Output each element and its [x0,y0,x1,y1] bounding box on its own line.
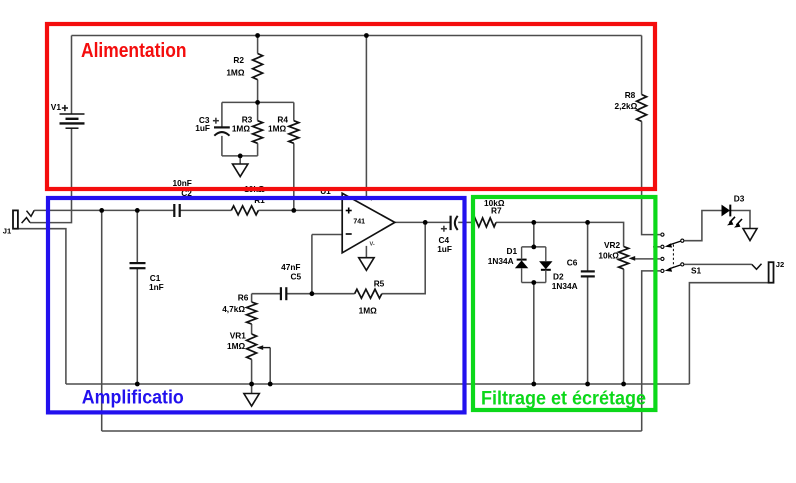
svg-text:1N34A: 1N34A [552,281,578,291]
wire feedback vertical [311,235,313,294]
label C4 plus sign [441,226,447,232]
node output/R5 [423,220,428,225]
wire R4 bottom lead to signal [293,143,295,210]
svg-text:1MΩ: 1MΩ [359,306,378,316]
wire R8 top lead [641,36,643,95]
svg-text:J1: J1 [3,227,12,236]
label VR1 [230,330,247,340]
wire switch contact B stub [653,246,660,248]
svg-text:10kΩ: 10kΩ [598,250,619,260]
wire battery positive lead [71,36,73,115]
node input/C1 [135,208,140,213]
ground under op-amp [359,258,374,271]
wire op-amp minus input [312,234,342,236]
svg-text:1nF: 1nF [149,282,164,292]
ground under VR1 [244,394,259,407]
label V1 [51,102,62,112]
diode D2 [539,247,552,283]
ground under D3 [743,229,757,241]
wire C1 top lead [136,210,138,263]
svg-text:V1: V1 [51,102,62,112]
wire diode pair top lead [533,222,535,247]
section box Alimentation [47,24,655,189]
node diode bottom [531,280,536,285]
svg-text:VR2: VR2 [604,240,621,250]
resistor R8 [637,95,647,122]
svg-text:1MΩ: 1MΩ [232,124,251,134]
wire op-amp V+ supply [365,36,367,198]
wire battery negative to J1 ring [30,128,72,222]
capacitor C3 [214,127,230,135]
diode D1 [515,247,528,283]
wire C3 bottom lead [221,136,223,156]
potentiometer VR2 [619,247,636,270]
label D3 [734,194,745,204]
svg-text:10nF: 10nF [173,178,192,188]
wire C3/R3 bottom joining [222,155,258,157]
node ground tap C3 [238,154,243,159]
wire R3 top lead [257,102,259,120]
wire C6 top lead [587,222,589,271]
node input/R4 [291,208,296,213]
svg-text:Filtrage et écrétage: Filtrage et écrétage [481,388,646,409]
capacitor C4 [451,216,458,230]
wire R6 top to C5 [252,293,281,295]
wire output drop to R5 [382,222,425,293]
label J1 [3,227,12,236]
wire C2 to R1 [180,209,232,211]
ground [233,164,248,177]
svg-text:1uF: 1uF [437,244,452,254]
label C2 value [173,178,192,188]
node input/bypass [99,208,104,213]
label D2 value [552,281,578,291]
label V1 plus sign [62,105,68,111]
svg-text:C6: C6 [567,258,578,268]
resistor R2 [253,54,263,80]
label S1 [691,265,702,275]
wire switch pole 1 to LED [684,211,721,241]
wire VR2 bottom lead [623,269,625,384]
label C4 [439,235,450,245]
op-amp U1 [342,193,395,253]
wire R8 bottom to switch contact A [642,121,661,234]
resistor R7 [473,218,496,227]
svg-text:J2: J2 [776,260,784,269]
label U1 [320,186,331,196]
wire VR1 bottom lead [251,359,253,384]
wire R2 top lead [257,36,259,54]
svg-text:D1: D1 [507,246,518,256]
svg-text:R8: R8 [625,90,636,100]
wire R3 bottom lead [257,143,259,156]
wire feedback node to R5 [312,293,355,295]
label D1 [507,246,518,256]
section box Filtrage [473,197,655,410]
label C1 [150,273,161,283]
resistor R6 [247,302,257,324]
capacitor C6 [581,271,595,276]
wire VR2 wiper to switch contact C [634,258,660,260]
wire C1 bottom lead [136,268,138,384]
svg-text:2,2kΩ: 2,2kΩ [614,101,637,111]
node feedback [310,291,315,296]
node R2-R3-C3-R4 [255,100,260,105]
resistor R1 [231,206,258,215]
capacitor C2 [174,204,179,217]
resistor R5 [355,289,382,298]
wire diode pair bottom lead [533,283,535,385]
node rail/R2 [255,33,260,38]
label C3 [199,115,210,125]
node rail/V+ [364,33,369,38]
label R2 [233,55,244,65]
node output/C6 [585,220,590,225]
label R2 value [226,68,245,78]
wire R1 to op-amp plus input [258,209,341,211]
svg-text:R7: R7 [491,206,502,216]
wire R6 top lead [251,294,253,302]
svg-text:R6: R6 [238,293,249,303]
wire switch pole 2 to J2 tip [684,263,751,265]
wire node R2/R3/C3/R4 horizontal [222,101,294,103]
label C5 [291,272,302,282]
section label Alimentation [81,40,187,62]
wire C5 to feedback node [286,293,312,295]
svg-text:Amplificatio: Amplificatio [82,388,184,409]
label R5 value [359,306,378,316]
label C5 value [281,262,300,272]
capacitor C5 [281,287,286,300]
svg-text:R2: R2 [233,55,244,65]
potentiometer VR1 [247,334,271,359]
capacitor C1 [130,263,146,268]
svg-text:741: 741 [353,218,365,225]
label R3 value [232,124,251,134]
label C6 [567,258,578,268]
wire VR1 wiper drop [269,348,271,384]
wire switch contact D to bypass rail [642,271,661,431]
svg-text:4,7kΩ: 4,7kΩ [222,304,245,314]
wire C3 top lead [221,102,223,127]
node output/diodes [531,220,536,225]
wire bypass rail to switch [102,430,642,432]
svg-text:S1: S1 [691,265,702,275]
label C3 plus sign [213,118,219,124]
label R6 value [222,304,245,314]
svg-text:D3: D3 [734,194,745,204]
svg-text:1uF: 1uF [195,123,210,133]
label R7 value [484,198,505,208]
label R1 [254,195,265,205]
wire input signal J1 tip to C2 [34,209,174,211]
node rail/diodes [531,382,536,387]
wire LED cathode to ground [730,211,750,229]
label R1 value [244,184,265,194]
resistor R3 [253,121,263,144]
wire ground stem under VR1 [251,384,253,394]
section box Amplification [48,198,465,412]
label R3 [242,115,253,125]
label VR1 value [227,341,246,351]
wire J1 sleeve to ground rail [18,229,66,384]
label U1 V- pin [370,241,375,247]
wire diode pair top [522,246,546,248]
svg-text:47nF: 47nF [281,262,300,272]
wire diode pair bottom [522,282,546,284]
section label Filtrage et ecretage [481,388,646,409]
svg-text:VR1: VR1 [230,330,247,340]
svg-text:R5: R5 [374,278,385,288]
svg-text:Alimentation: Alimentation [81,40,187,62]
svg-text:1MΩ: 1MΩ [226,68,245,78]
wire R6 to VR1 [251,324,253,334]
section label Amplificatio [82,388,184,409]
label C2 [181,188,192,198]
label C1 value [149,282,164,292]
label R7 [491,206,502,216]
wire op-amp V- stub [365,246,367,258]
LED D3 [722,205,743,228]
label U1 741 [353,218,365,225]
wire op-amp output [395,221,451,223]
wire bypass drop from input node [101,210,103,431]
label VR2 value [598,250,619,260]
jack J1 [13,210,34,228]
svg-text:1N34A: 1N34A [488,256,514,266]
svg-text:1MΩ: 1MΩ [268,124,287,134]
label R4 value [268,124,287,134]
wire R4 top lead [293,102,295,120]
node diode top [531,245,536,250]
wire ground stem under C3 [239,156,241,164]
wire C4 to R7 [458,221,473,223]
battery V1 [60,114,85,128]
svg-text:V-: V- [370,241,375,247]
wire R2 bottom lead [257,80,259,103]
label D1 value [488,256,514,266]
wire ground rail [66,383,690,385]
label R4 [277,115,288,125]
label J2 [776,260,784,269]
label C4 value [437,244,452,254]
label VR2 [604,240,621,250]
label U1 V+ pin [370,196,378,202]
node rail/wiper [268,382,273,387]
switch S1 [661,233,684,273]
label R5 [374,278,385,288]
node rail/VR1 [249,382,254,387]
wire R7 to VR2 top [496,222,624,246]
wire top power rail [72,35,642,37]
label D2 [553,272,564,282]
svg-text:1MΩ: 1MΩ [227,341,246,351]
label R6 [238,293,249,303]
node rail/C1 [135,382,140,387]
svg-text:C5: C5 [291,272,302,282]
wire C6 bottom lead [587,276,589,384]
label C3 value [195,123,210,133]
jack J2 [752,262,774,283]
label R8 [625,90,636,100]
node rail/VR2 [621,382,626,387]
wire J2 sleeve to ground rail [689,283,768,384]
node rail/C6 [585,382,590,387]
label R8 value [614,101,637,111]
resistor R4 [289,121,299,144]
